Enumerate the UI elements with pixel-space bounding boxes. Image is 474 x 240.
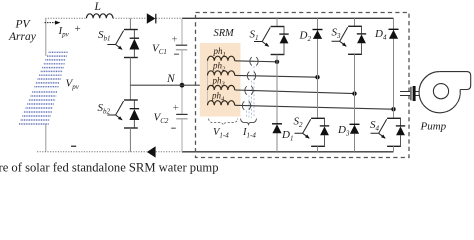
switch Sb1 bottom bar — [124, 57, 138, 59]
switch S1 antiparallel diode — [279, 27, 288, 54]
switch Sb2 antiparallel diode — [129, 101, 139, 128]
wire phase ph2 lead — [235, 75, 318, 77]
switch S4 antiparallel diode — [396, 119, 405, 146]
wire column S3/D3 lower — [354, 54, 356, 152]
svg-text:+: + — [172, 35, 178, 46]
svg-text:L: L — [94, 1, 101, 13]
switch S4 bottom bar — [387, 145, 401, 147]
brace I1-4 (phase currents) — [241, 119, 257, 125]
pump volute — [419, 72, 471, 113]
wire Sb1 to Sb2 — [129, 58, 131, 101]
capacitor C1 — [176, 45, 187, 50]
wire column S1 upper — [276, 18, 278, 26]
switch S1 top bar — [271, 26, 285, 28]
wire phase common bus — [207, 61, 209, 106]
switch S1 pole and throw — [254, 28, 270, 47]
wire capacitor branch bottom — [181, 119, 183, 152]
sensor dashed lead 2 — [251, 81, 253, 118]
minus sign C1 — [174, 54, 179, 55]
node phase 2 junction — [315, 75, 319, 79]
sensor dashed lead 1 — [253, 66, 255, 118]
wire column S1/D1 lower — [276, 55, 278, 152]
wire Sb2 to bottom bus — [129, 128, 131, 152]
wire column D4 upper — [393, 18, 395, 118]
phase winding ph3 — [208, 85, 235, 90]
node phase 4 junction — [391, 107, 395, 111]
switch S2 bottom bar — [311, 145, 325, 147]
svg-text:N: N — [166, 73, 176, 85]
SRM converter dashed boundary — [196, 13, 410, 158]
switch Sb1 top bar — [124, 29, 138, 31]
switch S2 antiparallel diode — [320, 119, 329, 146]
sensor dashed lead 4 — [246, 111, 248, 118]
wire Sb branch upper — [129, 18, 131, 29]
wire column D2 upper — [317, 18, 319, 118]
switch S3 pole and throw — [332, 27, 348, 46]
wire column S3 upper — [354, 18, 356, 26]
wire bottom bus mid — [156, 151, 182, 153]
wire column S2 lower — [317, 146, 319, 152]
switch S2 top bar — [311, 117, 325, 119]
shaft coupling bars — [410, 86, 415, 101]
switch S4 top bar — [387, 117, 401, 119]
svg-text:PV: PV — [15, 19, 32, 31]
wire top bus right (DC+ rail into converter) — [182, 17, 394, 19]
switch S4 pole and throw — [371, 119, 387, 138]
phase winding ph1 — [208, 56, 235, 61]
wire bottom bus left — [37, 151, 147, 153]
wire PV positive lead — [45, 18, 47, 56]
wire capacitor branch top — [181, 18, 183, 45]
switch S3 top bar — [348, 25, 362, 27]
sensor dashed lead 3 — [248, 95, 250, 118]
wire column S4 lower — [393, 146, 395, 152]
switch Sb1 pole and throw — [107, 31, 123, 50]
diode D3 — [350, 124, 360, 133]
svg-text:+: + — [173, 103, 179, 114]
current sensor phase 1 — [250, 57, 258, 65]
diode D1 — [272, 124, 282, 133]
diode bottom bus (pointing left) — [147, 146, 156, 157]
current sensor phase 3 — [245, 86, 253, 94]
svg-text:+: + — [75, 23, 81, 35]
current arrow Ipv — [45, 21, 61, 25]
svg-text:Pump: Pump — [420, 121, 447, 133]
switch S2 pole and throw — [295, 119, 311, 138]
wire top bus left (PV to boost diode) — [45, 17, 146, 19]
PV array panel hatching — [19, 52, 68, 124]
switch Sb2 pole and throw — [107, 101, 123, 120]
label PV Array — [8, 19, 37, 44]
wire bottom bus right (DC- rail) — [182, 151, 394, 153]
switch Sb2 top bar — [124, 99, 138, 101]
current sensor phase 2 — [247, 72, 255, 80]
motor shaft lines — [400, 92, 422, 96]
brace V1-4 (phase voltages) — [209, 119, 238, 125]
current sensor phase 4 — [242, 101, 250, 109]
node N dot — [180, 83, 185, 88]
SRM phase winding highlight box — [200, 43, 241, 117]
minus sign C2 — [171, 128, 176, 129]
wire node N to phase common — [130, 84, 207, 86]
capacitor C2 — [176, 114, 187, 118]
wire phase ph3 lead — [235, 90, 355, 94]
node phase 3 junction — [352, 91, 356, 95]
wire PV negative lead — [45, 125, 47, 152]
minus sign PV negative — [71, 146, 76, 147]
svg-text:re of solar fed standalone SRM: re of solar fed standalone SRM water pum… — [0, 161, 219, 175]
wire phase ph1 lead — [235, 61, 277, 62]
diode D4 — [389, 29, 399, 38]
svg-text:SRM: SRM — [214, 28, 236, 39]
phase winding ph2 — [208, 71, 235, 76]
diode D boost (top bus) — [147, 13, 156, 23]
switch S1 bottom bar — [271, 54, 285, 56]
phase winding ph4 — [208, 101, 235, 106]
node phase 1 junction — [275, 60, 279, 64]
switch S3 bottom bar — [348, 53, 362, 55]
switch S3 antiparallel diode — [357, 27, 366, 54]
svg-text:Array: Array — [8, 31, 37, 43]
wire capacitor branch middle — [181, 50, 183, 114]
wire phase ph4 lead — [235, 105, 394, 109]
wire top bus mid (diode to capacitor node) — [156, 17, 182, 19]
diode D2 — [313, 30, 323, 39]
switch Sb2 bottom bar — [124, 127, 138, 129]
inductor L — [87, 14, 113, 19]
pump impeller eye — [433, 84, 448, 99]
switch Sb1 antiparallel diode — [129, 30, 139, 57]
